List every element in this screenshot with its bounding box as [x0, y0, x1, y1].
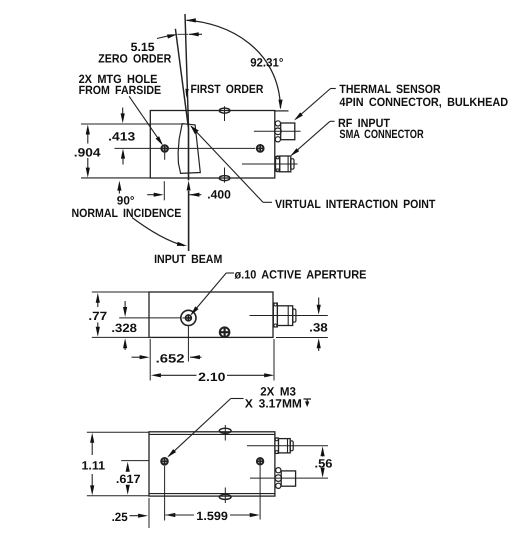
svg-text:THERMAL SENSOR: THERMAL SENSOR: [339, 82, 440, 96]
svg-text:.77: .77: [88, 309, 107, 323]
svg-text:NORMAL INCIDENCE: NORMAL INCIDENCE: [72, 206, 182, 220]
svg-text:.56: .56: [315, 456, 333, 470]
svg-text:4PIN CONNECTOR, BULKHEAD: 4PIN CONNECTOR, BULKHEAD: [339, 95, 508, 109]
svg-text:.38: .38: [309, 321, 328, 335]
svg-text:92.31°: 92.31°: [250, 55, 283, 69]
svg-text:ZERO ORDER: ZERO ORDER: [98, 51, 171, 65]
svg-text:INPUT BEAM: INPUT BEAM: [154, 252, 222, 266]
svg-text:FIRST ORDER: FIRST ORDER: [191, 82, 264, 96]
svg-text:SMA CONNECTOR: SMA CONNECTOR: [339, 127, 424, 141]
svg-text:FROM FARSIDE: FROM FARSIDE: [79, 83, 162, 97]
svg-text:VIRTUAL INTERACTION POINT: VIRTUAL INTERACTION POINT: [275, 197, 436, 211]
svg-text:.617: .617: [116, 472, 141, 486]
svg-text:.652: .652: [156, 352, 185, 366]
svg-text:ø.10 ACTIVE APERTURE: ø.10 ACTIVE APERTURE: [235, 268, 367, 282]
svg-text:1.11: 1.11: [82, 459, 106, 473]
svg-text:.328: .328: [111, 321, 137, 335]
svg-text:.25: .25: [112, 510, 128, 524]
svg-text:.400: .400: [207, 188, 231, 202]
svg-text:.413: .413: [108, 130, 135, 144]
svg-text:X 3.17MM: X 3.17MM: [245, 396, 302, 410]
svg-text:.904: .904: [74, 145, 101, 159]
svg-text:2.10: 2.10: [198, 370, 226, 384]
svg-text:1.599: 1.599: [196, 509, 228, 523]
